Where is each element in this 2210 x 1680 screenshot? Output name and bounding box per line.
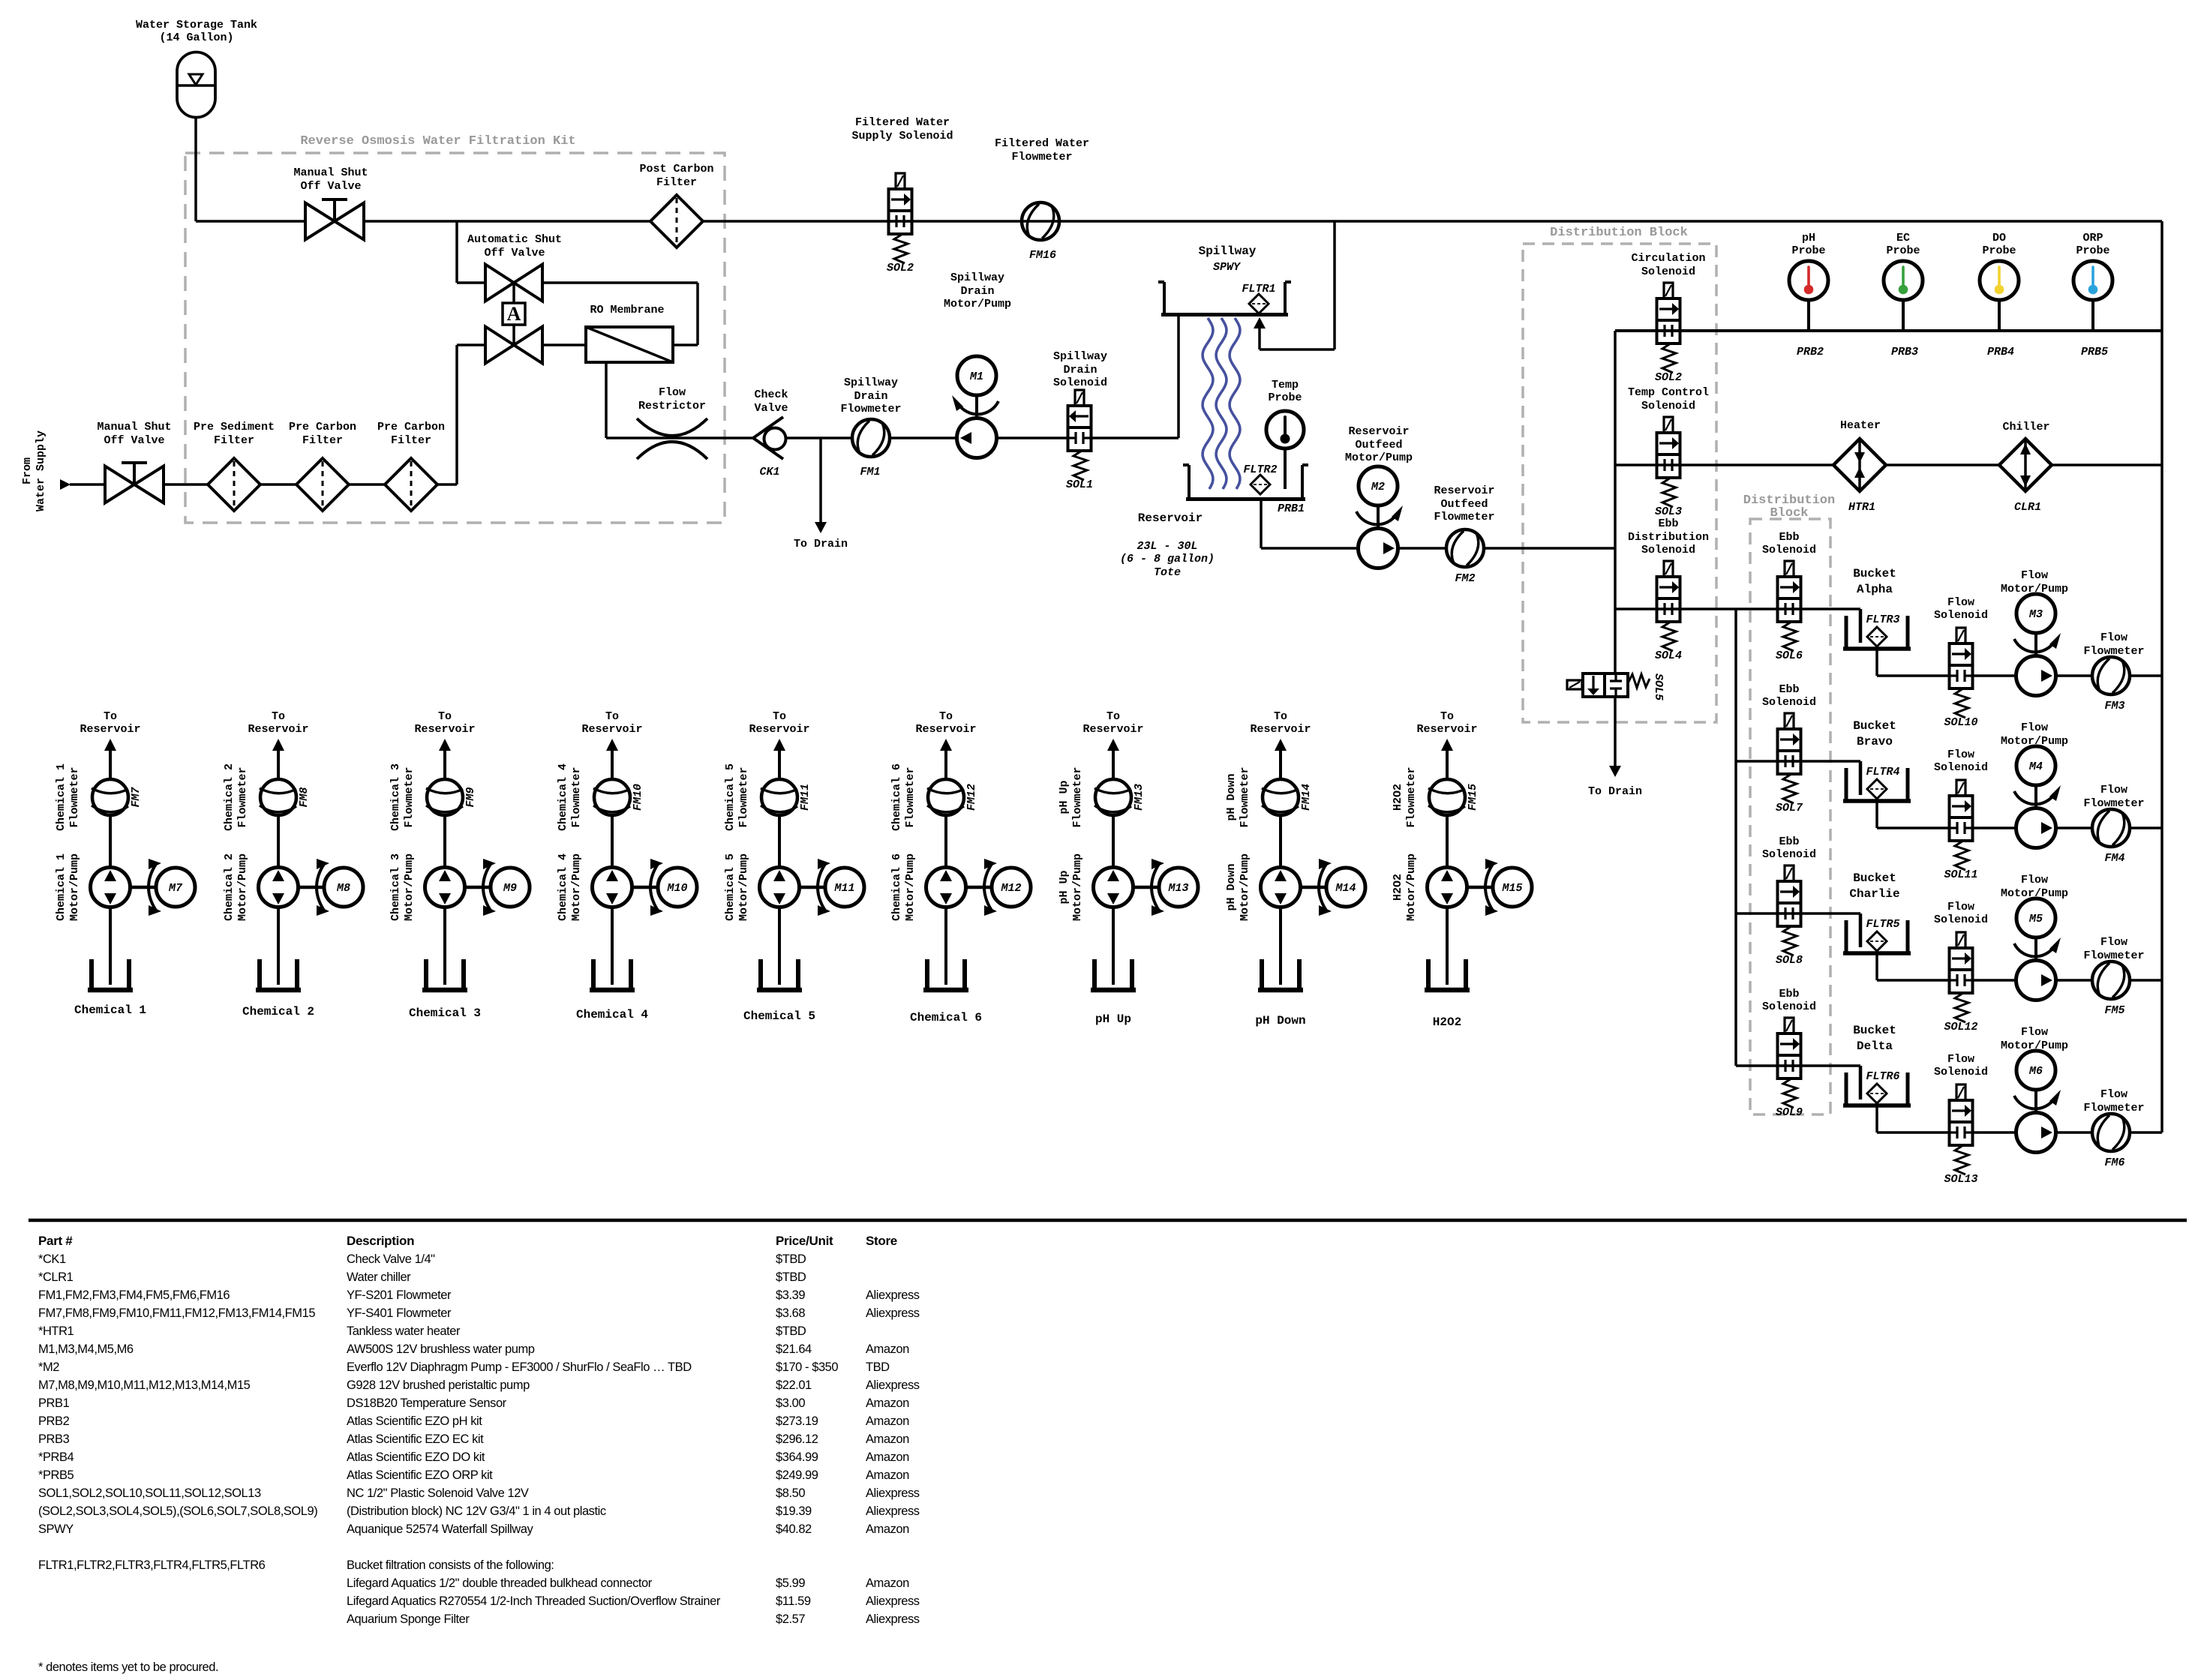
svg-text:FM14: FM14 <box>1300 784 1313 811</box>
svg-text:Flow: Flow <box>2021 1026 2048 1039</box>
svg-text:$TBD: $TBD <box>776 1270 806 1284</box>
svg-text:Outfeed: Outfeed <box>1440 498 1488 511</box>
svg-text:Water chiller: Water chiller <box>347 1270 411 1284</box>
svg-text:Aliexpress: Aliexpress <box>866 1594 920 1608</box>
svg-text:Flow: Flow <box>1947 596 1974 609</box>
svg-text:*CLR1: *CLR1 <box>38 1270 74 1284</box>
svg-text:Drain: Drain <box>1063 364 1097 376</box>
svg-text:Flowmeter: Flowmeter <box>403 766 416 827</box>
svg-text:Filter: Filter <box>302 434 343 447</box>
svg-text:Manual Shut: Manual Shut <box>97 421 171 433</box>
svg-text:Pre Sediment: Pre Sediment <box>194 421 275 433</box>
svg-text:Aquanique 52574 Waterfall Spil: Aquanique 52574 Waterfall Spillway <box>347 1522 533 1536</box>
svg-text:$22.01: $22.01 <box>776 1378 812 1392</box>
svg-text:Aliexpress: Aliexpress <box>866 1486 920 1500</box>
svg-text:Flowmeter: Flowmeter <box>570 766 583 827</box>
svg-text:NC 1/2" Plastic Solenoid Valve: NC 1/2" Plastic Solenoid Valve 12V <box>347 1486 529 1500</box>
svg-text:Amazon: Amazon <box>866 1576 909 1590</box>
svg-text:Solenoid: Solenoid <box>1762 544 1816 556</box>
svg-text:To: To <box>1107 710 1120 723</box>
svg-text:SOL11: SOL11 <box>1944 868 1977 881</box>
svg-text:Flow: Flow <box>2100 631 2127 644</box>
svg-text:Drain: Drain <box>854 390 887 403</box>
svg-text:FM6: FM6 <box>2104 1156 2124 1169</box>
svg-text:pH: pH <box>1802 232 1815 244</box>
svg-text:Amazon: Amazon <box>866 1414 909 1428</box>
svg-text:Ebb: Ebb <box>1779 531 1799 544</box>
svg-text:Bucket: Bucket <box>1853 719 1896 733</box>
svg-text:PRB5: PRB5 <box>2081 346 2108 358</box>
svg-text:M8: M8 <box>336 882 350 895</box>
svg-text:Reservoir: Reservoir <box>248 723 308 736</box>
svg-text:M14: M14 <box>1335 882 1356 895</box>
svg-text:Chemical 3: Chemical 3 <box>389 763 402 831</box>
svg-text:SOL3: SOL3 <box>1655 505 1682 518</box>
svg-text:M15: M15 <box>1501 882 1522 895</box>
svg-text:Motor/Pump: Motor/Pump <box>403 853 416 921</box>
svg-text:Amazon: Amazon <box>866 1522 909 1536</box>
svg-text:Alpha: Alpha <box>1857 583 1893 596</box>
svg-text:M6: M6 <box>2028 1065 2043 1078</box>
svg-text:Probe: Probe <box>1886 244 1920 257</box>
svg-text:SOL13: SOL13 <box>1944 1173 1977 1186</box>
svg-text:Solenoid: Solenoid <box>1641 265 1695 278</box>
svg-text:SOL1,SOL2,SOL10,SOL11,SOL12,SO: SOL1,SOL2,SOL10,SOL11,SOL12,SOL13 <box>38 1486 261 1500</box>
svg-text:$8.50: $8.50 <box>776 1486 805 1500</box>
svg-text:pH Down: pH Down <box>1225 773 1238 820</box>
svg-text:To: To <box>104 710 117 723</box>
svg-text:Off Valve: Off Valve <box>104 434 164 447</box>
svg-text:AW500S 12V brushless water pum: AW500S 12V brushless water pump <box>347 1342 535 1356</box>
svg-text:FLTR4: FLTR4 <box>1866 766 1899 778</box>
svg-text:PRB3: PRB3 <box>1891 346 1918 358</box>
svg-text:Probe: Probe <box>1791 244 1825 257</box>
svg-text:Solenoid: Solenoid <box>1934 913 1988 926</box>
svg-text:To: To <box>272 710 285 723</box>
svg-text:FM12: FM12 <box>965 784 978 811</box>
svg-text:Motor/Pump: Motor/Pump <box>737 853 750 921</box>
svg-text:M2: M2 <box>1371 481 1385 493</box>
svg-text:M4: M4 <box>2028 760 2043 773</box>
svg-text:Lifegard Aquatics R270554 1/2-: Lifegard Aquatics R270554 1/2-Inch Threa… <box>347 1594 721 1608</box>
svg-text:FLTR2: FLTR2 <box>1243 463 1277 476</box>
svg-text:SOL4: SOL4 <box>1655 649 1682 662</box>
svg-text:FM5: FM5 <box>2104 1004 2124 1017</box>
svg-text:M1: M1 <box>969 370 983 383</box>
svg-text:Amazon: Amazon <box>866 1342 909 1356</box>
svg-text:H2O2: H2O2 <box>1433 1015 1461 1029</box>
svg-text:YF-S201 Flowmeter: YF-S201 Flowmeter <box>347 1288 452 1302</box>
svg-text:To: To <box>438 710 452 723</box>
svg-text:To Drain: To Drain <box>794 538 848 550</box>
svg-text:Motor/Pump: Motor/Pump <box>236 853 249 921</box>
svg-text:Off Valve: Off Valve <box>484 247 545 259</box>
svg-text:SPWY: SPWY <box>38 1522 74 1536</box>
svg-text:Reservoir: Reservoir <box>915 723 976 736</box>
svg-text:(SOL2,SOL3,SOL4,SOL5),(SOL6,SO: (SOL2,SOL3,SOL4,SOL5),(SOL6,SOL7,SOL8,SO… <box>38 1504 317 1518</box>
svg-text:Chemical 2: Chemical 2 <box>223 763 236 831</box>
svg-text:SOL10: SOL10 <box>1944 716 1977 729</box>
svg-text:Reservoir: Reservoir <box>1250 723 1311 736</box>
svg-text:Ebb: Ebb <box>1779 683 1799 696</box>
svg-text:To: To <box>605 710 619 723</box>
svg-text:Filtered Water: Filtered Water <box>855 116 950 129</box>
svg-text:FM9: FM9 <box>464 787 477 807</box>
svg-text:Probe: Probe <box>2076 244 2109 257</box>
svg-text:Chemical 6: Chemical 6 <box>890 853 903 921</box>
svg-text:pH Up: pH Up <box>1095 1012 1131 1026</box>
svg-text:To: To <box>773 710 786 723</box>
svg-text:Spillway: Spillway <box>1053 350 1107 363</box>
svg-text:G928 12V brushed peristaltic p: G928 12V brushed peristaltic pump <box>347 1378 530 1392</box>
svg-text:Spillway: Spillway <box>844 376 898 389</box>
svg-text:M3: M3 <box>2028 608 2043 621</box>
svg-text:23L - 30L: 23L - 30L <box>1137 540 1197 553</box>
svg-text:Spillway: Spillway <box>950 271 1004 284</box>
svg-text:Motor/Pump: Motor/Pump <box>1071 853 1084 921</box>
svg-text:FM15: FM15 <box>1467 784 1479 811</box>
svg-text:FM3: FM3 <box>2104 700 2124 712</box>
svg-text:Valve: Valve <box>754 402 788 415</box>
svg-text:Motor/Pump: Motor/Pump <box>1239 853 1251 921</box>
svg-text:Flowmeter: Flowmeter <box>1405 766 1418 827</box>
svg-text:Reservoir: Reservoir <box>1082 723 1143 736</box>
svg-text:Flow: Flow <box>2021 569 2048 582</box>
svg-text:Reservoir: Reservoir <box>1348 425 1409 438</box>
svg-text:SOL2: SOL2 <box>1655 371 1682 384</box>
svg-text:Manual Shut: Manual Shut <box>293 166 368 179</box>
svg-text:pH Down: pH Down <box>1225 863 1238 910</box>
svg-text:Solenoid: Solenoid <box>1762 848 1816 861</box>
svg-text:Reservoir: Reservoir <box>1138 511 1203 525</box>
svg-text:Water Storage Tank: Water Storage Tank <box>136 19 257 31</box>
svg-text:HTR1: HTR1 <box>1848 501 1875 514</box>
svg-text:Block: Block <box>1770 506 1808 520</box>
svg-text:Atlas Scientific EZO EC kit: Atlas Scientific EZO EC kit <box>347 1432 484 1446</box>
svg-text:Check: Check <box>754 388 788 401</box>
svg-text:M12: M12 <box>1000 882 1021 895</box>
svg-text:Drain: Drain <box>960 285 994 298</box>
svg-text:Automatic Shut: Automatic Shut <box>467 233 562 246</box>
svg-text:Aliexpress: Aliexpress <box>866 1288 920 1302</box>
svg-text:Chemical 2: Chemical 2 <box>223 853 236 921</box>
svg-text:PRB4: PRB4 <box>1987 346 2014 358</box>
svg-text:Tote: Tote <box>1154 566 1181 579</box>
svg-text:FM10: FM10 <box>632 784 644 811</box>
svg-text:Spillway: Spillway <box>1199 244 1257 258</box>
svg-text:Ebb: Ebb <box>1779 835 1799 848</box>
svg-text:H2O2: H2O2 <box>1392 874 1404 901</box>
svg-text:Motor/Pump: Motor/Pump <box>1345 451 1413 464</box>
svg-text:Flow: Flow <box>1947 748 1974 761</box>
svg-text:EC: EC <box>1896 232 1910 244</box>
svg-text:YF-S401 Flowmeter: YF-S401 Flowmeter <box>347 1306 452 1320</box>
svg-text:Supply Solenoid: Supply Solenoid <box>851 130 953 142</box>
svg-text:FM2: FM2 <box>1455 572 1475 585</box>
svg-text:Flow: Flow <box>2021 874 2048 886</box>
svg-text:Flowmeter: Flowmeter <box>737 766 750 827</box>
svg-text:DO: DO <box>1992 232 2006 244</box>
svg-text:FM4: FM4 <box>2104 852 2124 865</box>
svg-text:Aliexpress: Aliexpress <box>866 1504 920 1518</box>
svg-text:TBD: TBD <box>866 1360 890 1374</box>
svg-text:Flowmeter: Flowmeter <box>1239 766 1251 827</box>
svg-text:*PRB4: *PRB4 <box>38 1450 74 1464</box>
svg-text:DS18B20 Temperature Sensor: DS18B20 Temperature Sensor <box>347 1396 507 1410</box>
svg-text:PRB1: PRB1 <box>38 1396 70 1410</box>
svg-text:SOL8: SOL8 <box>1776 954 1803 967</box>
svg-text:To: To <box>1440 710 1454 723</box>
svg-text:Outfeed: Outfeed <box>1355 439 1402 451</box>
svg-text:*CK1: *CK1 <box>38 1252 66 1266</box>
svg-text:Reservoir: Reservoir <box>749 723 809 736</box>
svg-text:$5.99: $5.99 <box>776 1576 805 1590</box>
svg-text:FM13: FM13 <box>1133 784 1146 811</box>
svg-text:Off Valve: Off Valve <box>300 180 361 193</box>
svg-text:FLTR6: FLTR6 <box>1866 1070 1899 1083</box>
svg-text:Chemical 6: Chemical 6 <box>910 1011 982 1024</box>
svg-text:Atlas Scientific EZO DO kit: Atlas Scientific EZO DO kit <box>347 1450 485 1464</box>
svg-text:FLTR3: FLTR3 <box>1866 613 1899 626</box>
svg-text:SOL2: SOL2 <box>887 262 914 274</box>
svg-text:Chemical 5: Chemical 5 <box>743 1009 815 1023</box>
svg-text:$170 - $350: $170 - $350 <box>776 1360 838 1374</box>
svg-text:Amazon: Amazon <box>866 1468 909 1482</box>
svg-text:Reservoir: Reservoir <box>80 723 140 736</box>
svg-text:Bucket: Bucket <box>1853 567 1896 580</box>
svg-text:H2O2: H2O2 <box>1392 784 1404 811</box>
svg-text:Flow: Flow <box>2100 1088 2127 1101</box>
svg-text:FM7,FM8,FM9,FM10,FM11,FM12,FM1: FM7,FM8,FM9,FM10,FM11,FM12,FM13,FM14,FM1… <box>38 1306 315 1320</box>
svg-text:Part #: Part # <box>38 1234 73 1248</box>
svg-text:CLR1: CLR1 <box>2014 501 2041 514</box>
svg-text:Atlas Scientific EZO ORP kit: Atlas Scientific EZO ORP kit <box>347 1468 493 1482</box>
svg-text:PRB2: PRB2 <box>1797 346 1824 358</box>
svg-text:PRB3: PRB3 <box>38 1432 70 1446</box>
svg-text:(14 Gallon): (14 Gallon) <box>159 31 233 44</box>
svg-text:Solenoid: Solenoid <box>1934 1066 1988 1078</box>
svg-text:FLTR1,FLTR2,FLTR3,FLTR4,FLTR5,: FLTR1,FLTR2,FLTR3,FLTR4,FLTR5,FLTR6 <box>38 1558 266 1572</box>
svg-text:Amazon: Amazon <box>866 1450 909 1464</box>
svg-text:Solenoid: Solenoid <box>1934 609 1988 622</box>
svg-text:$2.57: $2.57 <box>776 1612 805 1626</box>
svg-text:Solenoid: Solenoid <box>1053 376 1107 389</box>
svg-text:Heater: Heater <box>1840 419 1881 432</box>
svg-text:Solenoid: Solenoid <box>1762 1000 1816 1013</box>
svg-text:$11.59: $11.59 <box>776 1594 811 1608</box>
svg-text:To Drain: To Drain <box>1588 785 1642 798</box>
svg-text:$364.99: $364.99 <box>776 1450 818 1464</box>
svg-text:Filter: Filter <box>656 176 697 189</box>
svg-text:SOL1: SOL1 <box>1066 478 1093 491</box>
svg-text:M5: M5 <box>2028 913 2043 925</box>
svg-text:Water Supply: Water Supply <box>35 430 47 511</box>
svg-text:Flowmeter: Flowmeter <box>1011 151 1072 163</box>
svg-text:Chemical 4: Chemical 4 <box>576 1008 648 1021</box>
svg-text:SOL6: SOL6 <box>1776 649 1803 662</box>
svg-text:Circulation: Circulation <box>1631 252 1705 265</box>
svg-text:Motor/Pump: Motor/Pump <box>904 853 917 921</box>
svg-text:$273.19: $273.19 <box>776 1414 818 1428</box>
svg-text:SOL5: SOL5 <box>1652 673 1665 700</box>
svg-text:Check Valve 1/4": Check Valve 1/4" <box>347 1252 435 1266</box>
svg-text:FM11: FM11 <box>799 784 812 811</box>
svg-text:Chemical 3: Chemical 3 <box>389 853 402 921</box>
svg-text:Aquarium Sponge Filter: Aquarium Sponge Filter <box>347 1612 470 1626</box>
svg-text:Delta: Delta <box>1857 1039 1893 1053</box>
svg-text:Amazon: Amazon <box>866 1432 909 1446</box>
svg-text:Chemical 1: Chemical 1 <box>55 763 68 831</box>
svg-text:Flowmeter: Flowmeter <box>236 766 249 827</box>
svg-text:Temp: Temp <box>1272 379 1299 391</box>
svg-text:$TBD: $TBD <box>776 1252 806 1266</box>
svg-text:From: From <box>21 457 34 484</box>
svg-text:Probe: Probe <box>1982 244 2016 257</box>
svg-text:Flow: Flow <box>1947 1053 1974 1066</box>
svg-text:FM7: FM7 <box>130 787 143 808</box>
svg-text:* denotes items yet to be proc: * denotes items yet to be procured. <box>38 1660 218 1674</box>
svg-text:Motor/Pump: Motor/Pump <box>570 853 583 921</box>
svg-text:Price/Unit: Price/Unit <box>776 1234 833 1248</box>
svg-text:Chemical 6: Chemical 6 <box>890 763 903 831</box>
svg-text:*HTR1: *HTR1 <box>38 1324 74 1338</box>
svg-text:A: A <box>507 303 521 325</box>
svg-text:Store: Store <box>866 1234 897 1248</box>
svg-text:Chemical 2: Chemical 2 <box>242 1005 314 1018</box>
svg-text:*M2: *M2 <box>38 1360 59 1374</box>
svg-text:ORP: ORP <box>2082 232 2103 244</box>
svg-text:Filter: Filter <box>391 434 431 447</box>
svg-text:Chemical 5: Chemical 5 <box>724 763 737 831</box>
svg-text:Flowmeter: Flowmeter <box>68 766 81 827</box>
svg-text:Motor/Pump: Motor/Pump <box>1405 853 1418 921</box>
svg-text:*PRB5: *PRB5 <box>38 1468 74 1482</box>
svg-text:PRB2: PRB2 <box>38 1414 70 1428</box>
svg-text:Flow: Flow <box>659 386 686 399</box>
svg-text:M9: M9 <box>503 882 517 895</box>
svg-text:pH Up: pH Up <box>1058 780 1070 814</box>
svg-text:To: To <box>939 710 953 723</box>
svg-text:Chemical 4: Chemical 4 <box>557 763 569 831</box>
svg-text:$296.12: $296.12 <box>776 1432 818 1446</box>
svg-text:SOL9: SOL9 <box>1776 1106 1803 1119</box>
svg-text:Flow: Flow <box>1947 901 1974 913</box>
svg-text:Aliexpress: Aliexpress <box>866 1378 920 1392</box>
svg-text:$3.00: $3.00 <box>776 1396 805 1410</box>
svg-text:Everflo 12V Diaphragm Pump - E: Everflo 12V Diaphragm Pump - EF3000 / Sh… <box>347 1360 692 1374</box>
svg-text:M1,M3,M4,M5,M6: M1,M3,M4,M5,M6 <box>38 1342 134 1356</box>
svg-text:Reservoir: Reservoir <box>581 723 642 736</box>
svg-text:Chemical 4: Chemical 4 <box>557 853 569 921</box>
svg-text:Solenoid: Solenoid <box>1641 544 1695 556</box>
svg-text:Distribution Block: Distribution Block <box>1550 226 1688 240</box>
svg-text:Reservoir: Reservoir <box>1434 484 1494 497</box>
svg-text:M7: M7 <box>168 882 183 895</box>
svg-text:M7,M8,M9,M10,M11,M12,M13,M14,M: M7,M8,M9,M10,M11,M12,M13,M14,M15 <box>38 1378 251 1392</box>
svg-text:Reservoir: Reservoir <box>414 723 475 736</box>
svg-text:Aliexpress: Aliexpress <box>866 1612 920 1626</box>
svg-text:To: To <box>1274 710 1287 723</box>
svg-text:CK1: CK1 <box>759 466 779 478</box>
svg-text:PRB1: PRB1 <box>1278 502 1305 515</box>
svg-text:Pre Carbon: Pre Carbon <box>289 421 356 433</box>
svg-text:Solenoid: Solenoid <box>1641 400 1695 412</box>
svg-text:Flowmeter: Flowmeter <box>1434 511 1494 523</box>
svg-text:Probe: Probe <box>1268 391 1302 404</box>
svg-text:Pre Carbon: Pre Carbon <box>377 421 445 433</box>
svg-text:M10: M10 <box>666 882 687 895</box>
svg-text:Motor/Pump: Motor/Pump <box>68 853 81 921</box>
svg-text:Charlie: Charlie <box>1849 887 1899 901</box>
svg-text:Flow: Flow <box>2021 721 2048 734</box>
svg-text:Atlas Scientific EZO pH kit: Atlas Scientific EZO pH kit <box>347 1414 482 1428</box>
svg-text:Bucket: Bucket <box>1853 1024 1896 1037</box>
svg-text:M11: M11 <box>833 882 854 895</box>
svg-text:$3.39: $3.39 <box>776 1288 805 1302</box>
svg-text:Ebb: Ebb <box>1658 517 1678 530</box>
svg-text:Chemical 5: Chemical 5 <box>724 853 737 921</box>
svg-text:Flowmeter: Flowmeter <box>840 403 901 415</box>
svg-text:Restrictor: Restrictor <box>638 400 706 412</box>
svg-text:Bravo: Bravo <box>1857 735 1893 748</box>
svg-text:FLTR5: FLTR5 <box>1866 918 1899 931</box>
svg-text:Motor/Pump: Motor/Pump <box>944 298 1011 310</box>
svg-text:Post Carbon: Post Carbon <box>639 163 713 175</box>
svg-text:$19.39: $19.39 <box>776 1504 812 1518</box>
svg-text:FM16: FM16 <box>1029 249 1056 262</box>
svg-text:$3.68: $3.68 <box>776 1306 805 1320</box>
svg-text:RO Membrane: RO Membrane <box>590 304 664 316</box>
svg-text:Chemical 1: Chemical 1 <box>55 853 68 921</box>
svg-text:SOL7: SOL7 <box>1776 802 1803 814</box>
svg-text:Distribution: Distribution <box>1628 531 1709 544</box>
svg-text:Flow: Flow <box>2100 936 2127 949</box>
svg-text:FM1: FM1 <box>860 466 880 478</box>
svg-text:$TBD: $TBD <box>776 1324 806 1338</box>
svg-text:Chemical 1: Chemical 1 <box>74 1003 146 1017</box>
svg-text:SPWY: SPWY <box>1213 261 1242 274</box>
svg-text:FM1,FM2,FM3,FM4,FM5,FM6,FM16: FM1,FM2,FM3,FM4,FM5,FM6,FM16 <box>38 1288 230 1302</box>
svg-text:Description: Description <box>347 1234 414 1248</box>
svg-text:M13: M13 <box>1167 882 1188 895</box>
svg-text:pH Up: pH Up <box>1058 870 1070 904</box>
svg-text:FM8: FM8 <box>298 787 311 807</box>
svg-text:(6 - 8 gallon): (6 - 8 gallon) <box>1120 553 1215 565</box>
svg-text:Tankless water heater: Tankless water heater <box>347 1324 461 1338</box>
svg-text:Ebb: Ebb <box>1779 988 1799 1000</box>
svg-text:Solenoid: Solenoid <box>1934 761 1988 774</box>
svg-text:Flow: Flow <box>2100 784 2127 796</box>
svg-text:$249.99: $249.99 <box>776 1468 818 1482</box>
svg-text:$21.64: $21.64 <box>776 1342 812 1356</box>
svg-text:Flowmeter: Flowmeter <box>904 766 917 827</box>
svg-text:Filtered Water: Filtered Water <box>995 137 1089 150</box>
svg-text:SOL12: SOL12 <box>1944 1021 1977 1033</box>
svg-text:Bucket filtration consists of: Bucket filtration consists of the follow… <box>347 1558 554 1572</box>
svg-text:Lifegard Aquatics 1/2" double: Lifegard Aquatics 1/2" double threaded b… <box>347 1576 653 1590</box>
svg-text:Flowmeter: Flowmeter <box>1071 766 1084 827</box>
svg-text:Filter: Filter <box>214 434 254 447</box>
svg-text:Reservoir: Reservoir <box>1416 723 1477 736</box>
svg-text:(Distribution block) NC 12V G3: (Distribution block) NC 12V G3/4" 1 in 4… <box>347 1504 606 1518</box>
svg-text:Solenoid: Solenoid <box>1762 696 1816 709</box>
svg-text:Bucket: Bucket <box>1853 871 1896 885</box>
svg-text:Chemical 3: Chemical 3 <box>409 1006 481 1020</box>
svg-text:Aliexpress: Aliexpress <box>866 1306 920 1320</box>
svg-text:Temp Control: Temp Control <box>1628 386 1709 399</box>
svg-text:Reverse Osmosis Water Filtrati: Reverse Osmosis Water Filtration Kit <box>300 134 575 148</box>
svg-text:Chiller: Chiller <box>2002 421 2049 433</box>
